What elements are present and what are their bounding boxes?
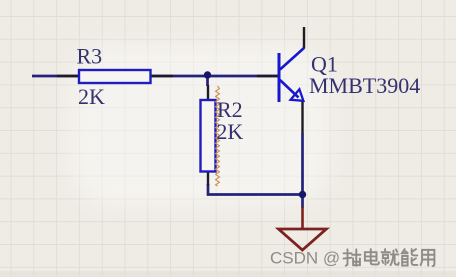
svg-text:CSDN @: CSDN @ xyxy=(270,249,340,268)
svg-text:2K: 2K xyxy=(78,84,105,109)
svg-text:MMBT3904: MMBT3904 xyxy=(309,73,420,98)
svg-text:2K: 2K xyxy=(216,119,243,144)
svg-text:R3: R3 xyxy=(77,44,103,69)
